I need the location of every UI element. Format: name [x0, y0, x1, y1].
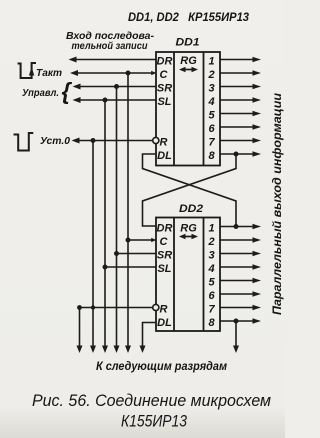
svg-text:Такт: Такт	[36, 67, 62, 79]
arrowhead left C	[70, 70, 78, 76]
junction dot C line DD1	[126, 71, 131, 76]
svg-text:3: 3	[208, 249, 214, 261]
wire DR input DD1	[73, 59, 156, 61]
junction dot SL line DD1	[103, 98, 108, 103]
inversion bubble R DD1	[153, 137, 159, 143]
svg-text:Уст.0: Уст.0	[40, 135, 70, 147]
register DD2 box	[156, 218, 220, 332]
output wires DD2 pins 1-8	[220, 226, 253, 228]
junction dot pin1 DD2	[234, 224, 239, 229]
pin labels DD2 left	[157, 222, 173, 328]
corner dot R wire DD2	[77, 305, 82, 310]
junction dot SR tap DD2	[114, 251, 119, 256]
svg-text:C: C	[160, 69, 169, 81]
junction dot pin8 DD1	[234, 152, 239, 157]
svg-text:SR: SR	[157, 249, 172, 261]
svg-text:1: 1	[208, 55, 214, 67]
wire DL output DD1 to crossover	[143, 154, 237, 227]
wire SL input DD1	[78, 99, 157, 101]
junction dot C tap DD2	[126, 238, 131, 243]
svg-text:2: 2	[207, 236, 214, 248]
svg-text:4: 4	[207, 96, 214, 108]
dynamic input mark C DD1	[151, 71, 156, 75]
svg-text:DD1, DD2 КР155ИР13: DD1, DD2 КР155ИР13	[128, 12, 250, 24]
pin labels DD1 left	[157, 55, 173, 162]
svg-text:К следующим разрядам: К следующим разрядам	[96, 359, 227, 373]
wire pin8 DD2 branch down	[235, 321, 237, 347]
wire SR bus vertical	[116, 87, 118, 347]
svg-text:6: 6	[208, 123, 215, 135]
svg-text:DL: DL	[157, 317, 172, 329]
svg-text:8: 8	[208, 150, 215, 162]
svg-text:SL: SL	[157, 96, 171, 108]
arrowhead left DR	[69, 57, 77, 63]
bidirectional arrow DD2	[179, 234, 198, 239]
wire C input DD2	[128, 239, 155, 241]
svg-text:К155ИР13: К155ИР13	[121, 412, 187, 431]
svg-text:DR: DR	[157, 55, 173, 67]
wire SL input DD2	[105, 266, 156, 268]
svg-text:RG: RG	[180, 222, 197, 234]
svg-text:7: 7	[208, 303, 215, 315]
svg-text:DD1: DD1	[176, 37, 200, 49]
wire R bus vertical (Уст.0)	[92, 141, 94, 347]
svg-text:R: R	[160, 303, 168, 315]
register DD1 box	[156, 52, 220, 166]
junction dot R tap DD2	[91, 305, 95, 309]
junction dot pin8 DD2	[234, 319, 239, 324]
svg-text:6: 6	[208, 290, 215, 302]
wire R input DD2 with corner down	[80, 308, 153, 347]
arrowhead bottom pin8 DD2	[233, 346, 239, 354]
svg-text:4: 4	[207, 263, 214, 275]
svg-text:2: 2	[207, 69, 214, 81]
wire SR input DD2	[117, 253, 157, 255]
svg-text:7: 7	[208, 136, 215, 148]
svg-text:5: 5	[208, 109, 215, 121]
waveform symbol Такт	[18, 63, 37, 78]
svg-text:Рис. 56. Соединение микросхем: Рис. 56. Соединение микросхем	[32, 391, 271, 410]
arrowheads outputs DD2	[253, 224, 262, 229]
svg-text:тельной записи: тельной записи	[72, 41, 148, 52]
svg-text:1: 1	[208, 222, 214, 234]
pin numbers DD1 right	[207, 55, 215, 162]
inversion bubble R DD2	[153, 304, 159, 310]
arrowhead left SL	[73, 97, 81, 103]
junction dot SL tap DD2	[103, 265, 108, 270]
wire C input DD1 (Такт)	[75, 72, 155, 74]
dynamic input mark C DD2	[151, 238, 156, 242]
wire SR input DD1	[78, 86, 157, 88]
bidirectional arrow DD1	[179, 67, 198, 72]
svg-text:DR: DR	[157, 222, 173, 234]
svg-text:SL: SL	[157, 263, 171, 275]
wire SL bus vertical	[104, 100, 106, 347]
svg-text:8: 8	[208, 317, 215, 329]
svg-text:DD2: DD2	[179, 203, 203, 215]
arrowhead left Уст.0	[72, 138, 80, 144]
svg-text:SR: SR	[157, 82, 172, 94]
arrowhead bottom DL DD2	[140, 346, 146, 354]
svg-text:C: C	[160, 236, 169, 248]
wire DL output DD2 down	[143, 323, 157, 347]
svg-text:3: 3	[208, 82, 214, 94]
svg-text:Параллельный выход информации: Параллельный выход информации	[272, 93, 284, 315]
wire C bus vertical	[127, 73, 129, 347]
output wires DD1 pins 1-8	[220, 59, 253, 61]
waveform symbol Уст.0	[14, 133, 34, 151]
svg-text:5: 5	[208, 276, 215, 288]
wire pin8 DD1 branch to DR DD2 crossover	[143, 154, 237, 226]
pin numbers DD2 right	[207, 222, 215, 328]
svg-text:R: R	[160, 136, 168, 148]
svg-text:DL: DL	[157, 150, 172, 162]
arrowheads outputs DD1	[253, 57, 262, 62]
arrowheads bottom buses	[77, 346, 83, 354]
svg-text:RG: RG	[180, 55, 197, 67]
svg-text:Управл.: Управл.	[22, 87, 59, 99]
arrowhead left SR	[73, 84, 81, 90]
wire R input DD1 (Уст.0)	[77, 140, 153, 142]
junction dot Уст.0 line	[91, 138, 96, 143]
junction dot SR line DD1	[114, 84, 119, 89]
